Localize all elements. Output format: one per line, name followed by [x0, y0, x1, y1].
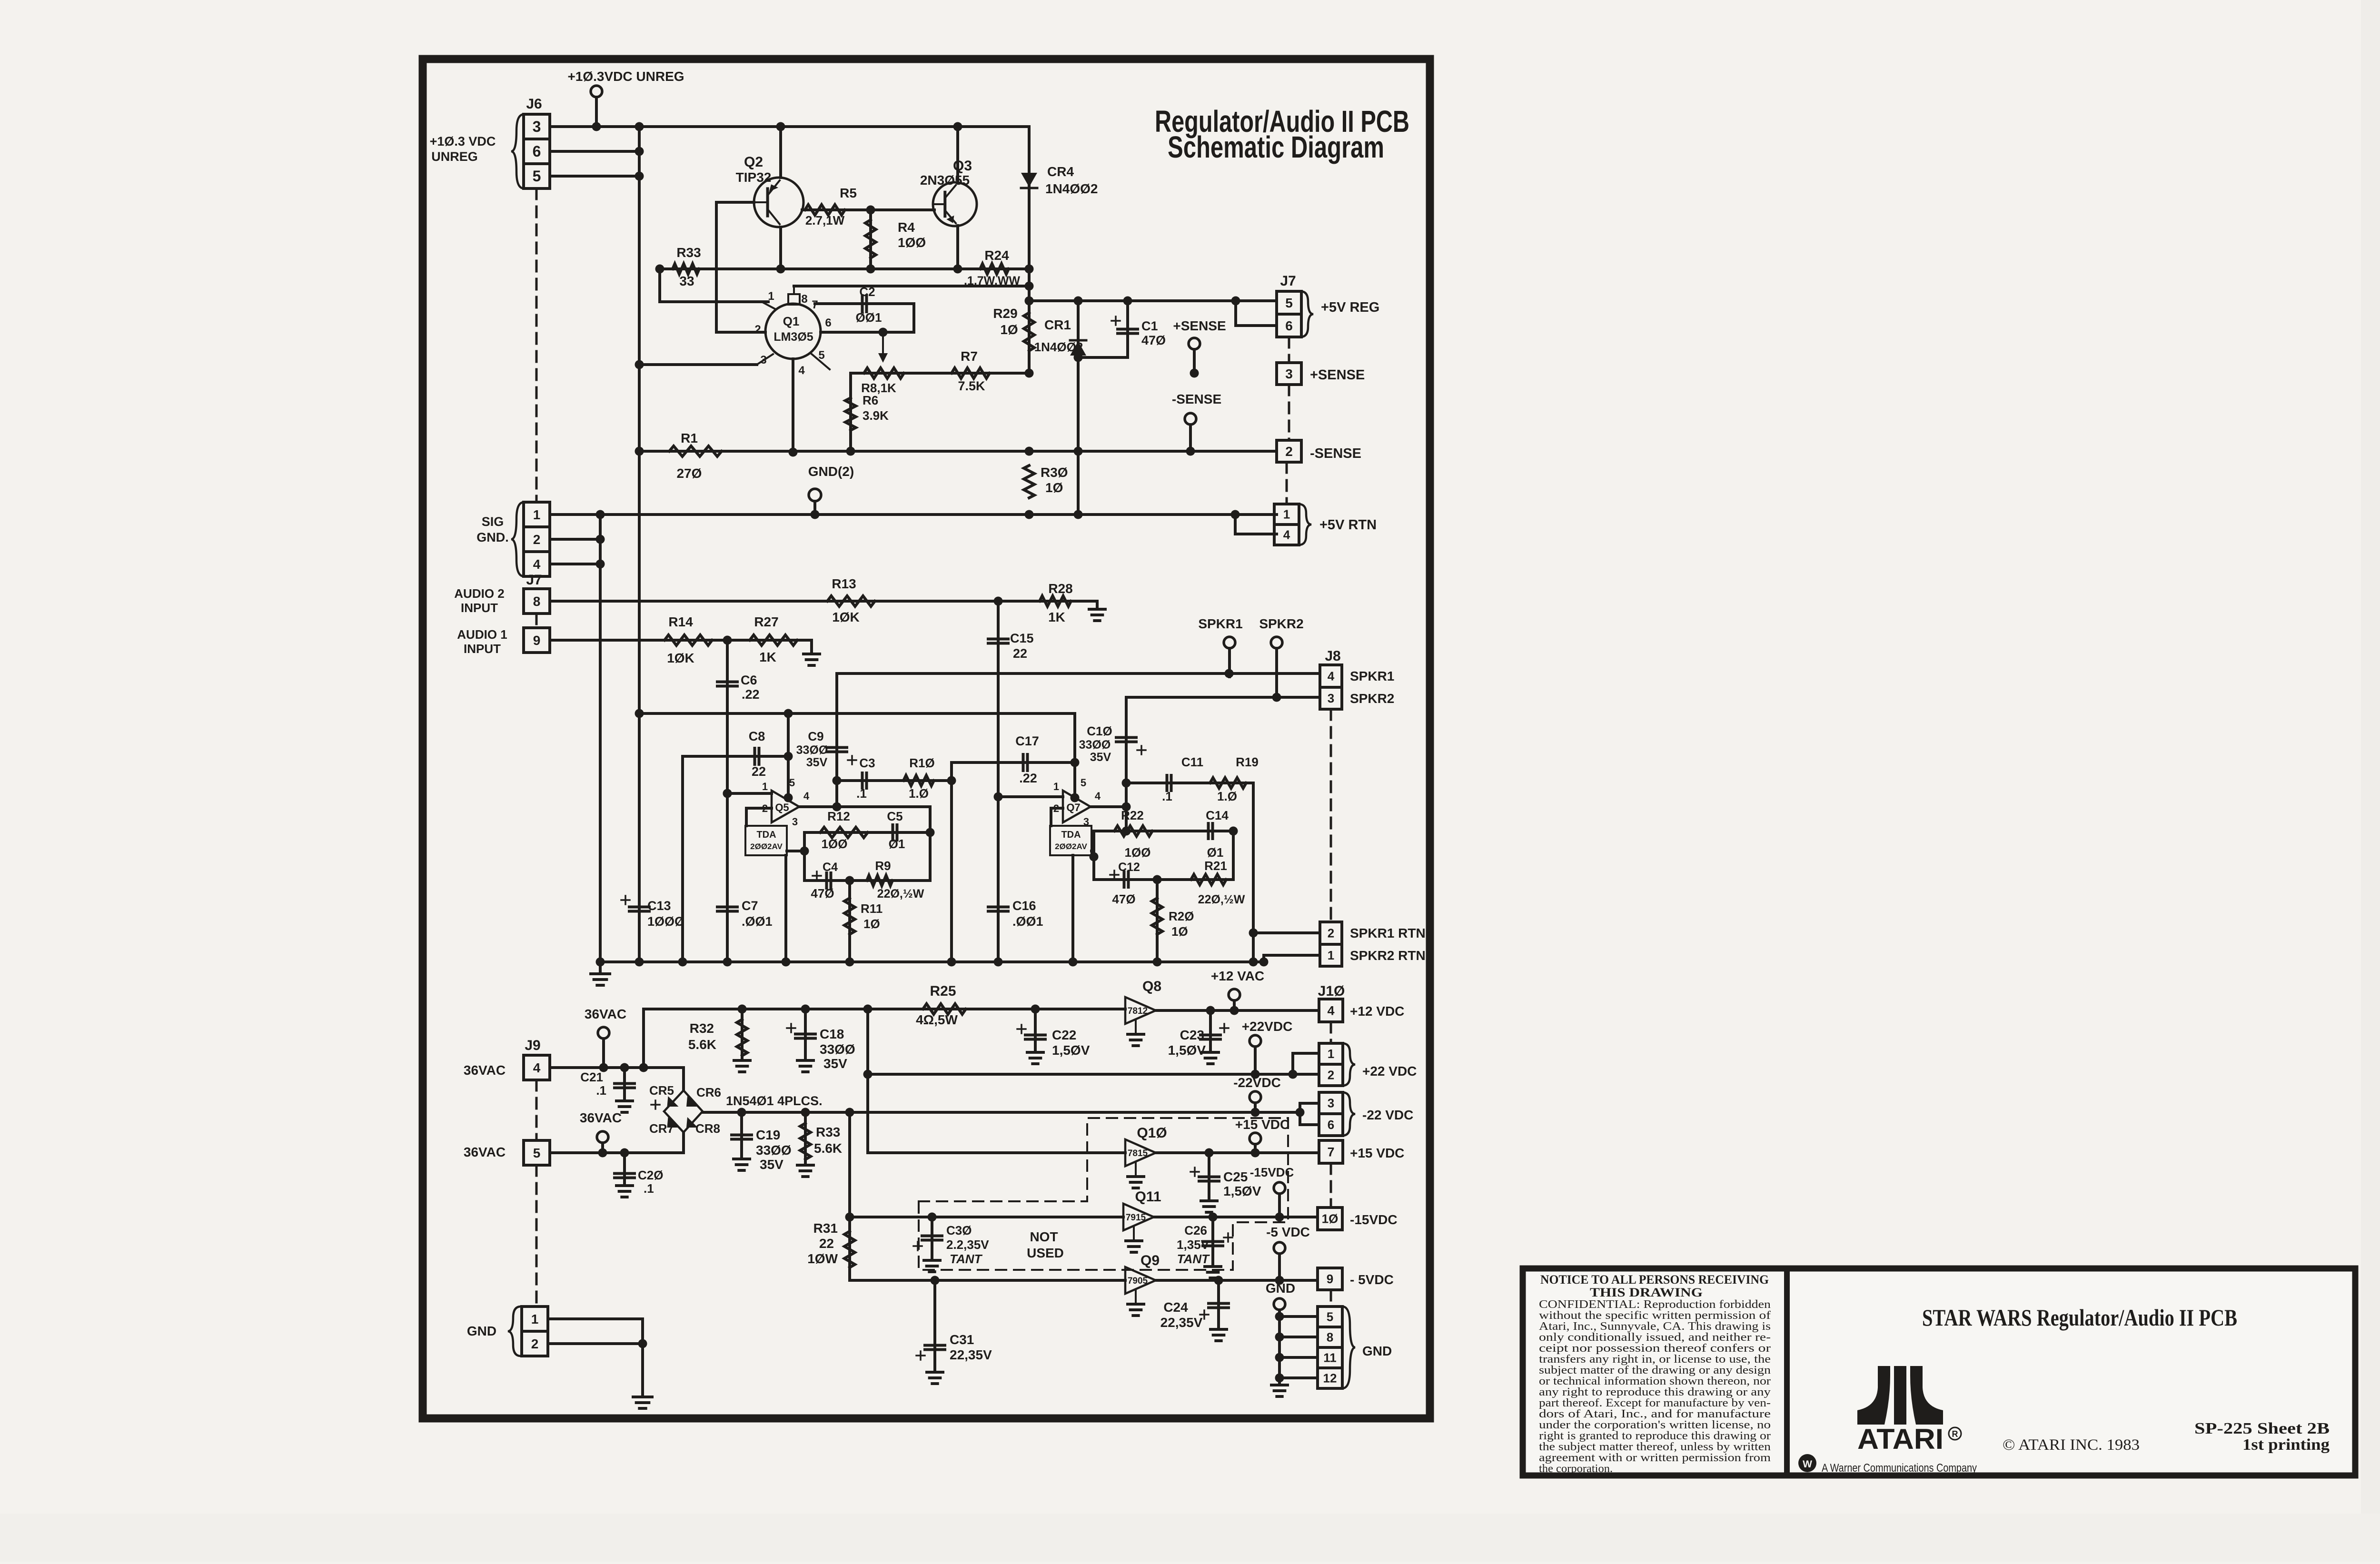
- svg-text:INPUT: INPUT: [461, 601, 498, 615]
- svg-text:R21: R21: [1204, 859, 1227, 873]
- svg-text:22: 22: [819, 1236, 834, 1251]
- svg-text:Q5: Q5: [775, 802, 789, 813]
- svg-text:C25: C25: [1223, 1169, 1248, 1184]
- svg-text:1: 1: [762, 781, 768, 792]
- svg-text:4: 4: [533, 1060, 541, 1075]
- svg-text:R: R: [1952, 1429, 1958, 1439]
- svg-text:Schematic Diagram: Schematic Diagram: [1168, 130, 1384, 164]
- svg-text:22: 22: [1013, 646, 1027, 661]
- svg-text:GND: GND: [1362, 1344, 1392, 1358]
- svg-text:+22 VDC: +22 VDC: [1362, 1064, 1417, 1079]
- svg-text:R14: R14: [668, 614, 693, 629]
- svg-text:4: 4: [1283, 528, 1290, 542]
- svg-text:1Ø: 1Ø: [1171, 924, 1188, 939]
- svg-text:INPUT: INPUT: [464, 642, 501, 656]
- svg-text:C2Ø: C2Ø: [638, 1168, 663, 1182]
- svg-text:R32: R32: [690, 1021, 714, 1036]
- svg-text:4: 4: [533, 557, 541, 572]
- svg-text:R28: R28: [1048, 581, 1072, 596]
- svg-text:1: 1: [1328, 948, 1334, 962]
- svg-text:7915: 7915: [1126, 1213, 1146, 1223]
- svg-text:R11: R11: [861, 901, 883, 916]
- svg-text:1,35V: 1,35V: [1177, 1237, 1210, 1252]
- svg-text:36VAC: 36VAC: [580, 1110, 622, 1125]
- svg-text:2: 2: [1328, 926, 1334, 940]
- svg-text:+SENSE: +SENSE: [1173, 318, 1226, 333]
- svg-text:1,5ØV: 1,5ØV: [1223, 1184, 1261, 1198]
- svg-text:+15 VDC: +15 VDC: [1350, 1146, 1404, 1160]
- svg-text:NOTICE TO ALL PERSONS RECEIVIN: NOTICE TO ALL PERSONS RECEIVING: [1540, 1273, 1769, 1287]
- svg-text:R25: R25: [930, 983, 956, 999]
- svg-text:STAR WARS Regulator/Audio II P: STAR WARS Regulator/Audio II PCB: [1922, 1304, 2237, 1331]
- svg-text:5: 5: [533, 168, 541, 185]
- svg-text:5.6K: 5.6K: [814, 1141, 842, 1156]
- svg-text:1K: 1K: [759, 650, 776, 664]
- svg-text:C3Ø: C3Ø: [946, 1223, 972, 1237]
- svg-text:2: 2: [531, 1336, 539, 1351]
- svg-text:R19: R19: [1236, 755, 1259, 769]
- svg-text:1ØØØ: 1ØØØ: [647, 914, 684, 929]
- svg-text:1ØØ: 1ØØ: [898, 235, 926, 250]
- svg-text:22Ø,½W: 22Ø,½W: [1198, 893, 1245, 906]
- svg-text:22: 22: [752, 764, 766, 779]
- svg-text:47Ø: 47Ø: [1141, 333, 1166, 347]
- svg-text:1Ø: 1Ø: [1000, 322, 1018, 337]
- svg-text:+SENSE: +SENSE: [1310, 367, 1365, 383]
- svg-text:+22VDC: +22VDC: [1242, 1019, 1293, 1034]
- svg-text:R33: R33: [816, 1125, 840, 1139]
- svg-text:TANT: TANT: [950, 1252, 983, 1266]
- svg-text:2.2,35V: 2.2,35V: [946, 1237, 989, 1252]
- svg-text:A Warner Communications Compan: A Warner Communications Company: [1822, 1462, 1977, 1475]
- svg-text:1Ø: 1Ø: [863, 917, 880, 931]
- svg-text:GND: GND: [467, 1324, 496, 1338]
- svg-text:C31: C31: [950, 1332, 974, 1347]
- svg-text:R1: R1: [681, 431, 698, 445]
- svg-text:R5: R5: [840, 186, 857, 200]
- svg-text:12: 12: [1323, 1371, 1337, 1386]
- svg-text:R2Ø: R2Ø: [1169, 909, 1194, 923]
- svg-text:33ØØ: 33ØØ: [756, 1143, 792, 1158]
- svg-text:+12 VDC: +12 VDC: [1350, 1004, 1404, 1019]
- svg-text:R12: R12: [827, 809, 850, 823]
- svg-text:SPKR2: SPKR2: [1350, 691, 1394, 706]
- svg-text:.1: .1: [856, 786, 867, 801]
- svg-text:SPKR1 RTN: SPKR1 RTN: [1350, 926, 1426, 940]
- svg-text:3: 3: [1328, 1096, 1334, 1110]
- svg-text:C11: C11: [1181, 755, 1203, 769]
- svg-text:SIG: SIG: [482, 515, 504, 529]
- svg-text:© ATARI INC. 1983: © ATARI INC. 1983: [2003, 1436, 2140, 1454]
- svg-text:C24: C24: [1163, 1300, 1188, 1315]
- svg-text:1ØW: 1ØW: [807, 1251, 838, 1266]
- svg-text:.ØØ1: .ØØ1: [742, 914, 773, 929]
- svg-text:Q1Ø: Q1Ø: [1137, 1125, 1167, 1141]
- svg-text:Q1: Q1: [783, 314, 800, 328]
- svg-text:R22: R22: [1121, 808, 1144, 822]
- svg-text:C8: C8: [749, 729, 765, 743]
- svg-text:C23: C23: [1180, 1028, 1204, 1042]
- svg-text:Q8: Q8: [1142, 979, 1161, 994]
- svg-text:27Ø: 27Ø: [677, 466, 702, 481]
- svg-text:1N54Ø1 4PLCS.: 1N54Ø1 4PLCS.: [726, 1094, 823, 1108]
- svg-text:Q9: Q9: [1140, 1253, 1160, 1268]
- svg-text:-SENSE: -SENSE: [1172, 392, 1221, 406]
- svg-text:Ø1: Ø1: [1207, 845, 1224, 860]
- svg-text:-22VDC: -22VDC: [1233, 1075, 1281, 1090]
- svg-text:GND.: GND.: [476, 530, 509, 544]
- svg-text:36VAC: 36VAC: [464, 1063, 506, 1078]
- svg-text:22,35V: 22,35V: [1160, 1315, 1203, 1330]
- svg-text:R9: R9: [875, 859, 891, 873]
- svg-text:2N3Ø55: 2N3Ø55: [920, 173, 970, 188]
- svg-text:UNREG: UNREG: [431, 149, 478, 164]
- svg-text:2: 2: [1285, 444, 1293, 459]
- svg-text:R13: R13: [832, 576, 856, 591]
- svg-text:1: 1: [1053, 781, 1059, 792]
- svg-text:+5V REG: +5V REG: [1321, 300, 1379, 315]
- svg-text:3: 3: [760, 354, 766, 366]
- svg-text:8: 8: [1327, 1330, 1333, 1345]
- svg-text:C2: C2: [859, 285, 875, 299]
- svg-text:4: 4: [1328, 669, 1335, 683]
- svg-text:7815: 7815: [1128, 1148, 1148, 1158]
- svg-text:SP-225 Sheet 2B: SP-225 Sheet 2B: [2194, 1420, 2330, 1437]
- svg-text:C14: C14: [1206, 808, 1229, 822]
- svg-text:CR1: CR1: [1044, 317, 1071, 332]
- svg-text:SPKR1: SPKR1: [1198, 616, 1242, 631]
- svg-text:5: 5: [1327, 1310, 1333, 1324]
- svg-text:4: 4: [803, 790, 810, 802]
- svg-text:33: 33: [679, 274, 694, 288]
- svg-text:-SENSE: -SENSE: [1310, 446, 1361, 461]
- svg-text:1K: 1K: [1048, 610, 1065, 624]
- svg-text:C21: C21: [580, 1070, 603, 1084]
- svg-text:+5V RTN: +5V RTN: [1319, 517, 1377, 533]
- svg-text:1st printing: 1st printing: [2242, 1436, 2330, 1454]
- svg-text:C1: C1: [1141, 319, 1158, 333]
- svg-text:1: 1: [768, 290, 774, 303]
- svg-text:35V: 35V: [1090, 751, 1111, 764]
- svg-text:3: 3: [1285, 366, 1293, 381]
- svg-text:R3Ø: R3Ø: [1041, 465, 1068, 480]
- svg-text:AUDIO 1: AUDIO 1: [457, 627, 507, 642]
- svg-text:W: W: [1803, 1459, 1812, 1470]
- svg-text:R31: R31: [813, 1221, 838, 1236]
- svg-text:C5: C5: [887, 809, 902, 823]
- svg-text:5: 5: [818, 349, 824, 362]
- svg-text:USED: USED: [1027, 1246, 1064, 1260]
- svg-text:CR8: CR8: [695, 1121, 720, 1136]
- svg-text:11: 11: [1323, 1351, 1337, 1365]
- svg-text:4: 4: [1327, 1003, 1334, 1018]
- svg-text:2.7,1W: 2.7,1W: [805, 213, 845, 228]
- svg-text:9: 9: [1327, 1272, 1333, 1286]
- svg-text:R24: R24: [984, 248, 1009, 263]
- svg-text:Q11: Q11: [1135, 1189, 1161, 1205]
- svg-text:C16: C16: [1012, 899, 1036, 913]
- svg-text:C26: C26: [1184, 1223, 1207, 1237]
- svg-text:R6: R6: [863, 393, 878, 407]
- svg-text:- 5VDC: - 5VDC: [1350, 1272, 1394, 1287]
- svg-text:-15VDC: -15VDC: [1350, 1212, 1398, 1227]
- svg-text:.1: .1: [644, 1181, 654, 1196]
- svg-text:1,5ØV: 1,5ØV: [1052, 1043, 1090, 1058]
- svg-text:1Ø: 1Ø: [1045, 480, 1063, 495]
- svg-text:5: 5: [1285, 296, 1293, 310]
- svg-text:TDA: TDA: [1061, 830, 1081, 840]
- svg-text:36VAC: 36VAC: [585, 1007, 626, 1021]
- svg-text:1.Ø: 1.Ø: [1217, 789, 1237, 803]
- svg-text:CR5: CR5: [649, 1083, 674, 1098]
- svg-text:1Ø: 1Ø: [1322, 1212, 1339, 1226]
- svg-text:3: 3: [1328, 691, 1334, 705]
- svg-text:7905: 7905: [1128, 1276, 1148, 1286]
- svg-text:C18: C18: [820, 1027, 844, 1041]
- svg-text:1ØØ: 1ØØ: [822, 837, 848, 851]
- svg-text:J7: J7: [526, 572, 542, 588]
- svg-text:LM3Ø5: LM3Ø5: [773, 330, 813, 344]
- svg-text:+12 VAC: +12 VAC: [1211, 969, 1264, 983]
- svg-text:33ØØ: 33ØØ: [1079, 738, 1111, 752]
- svg-text:C19: C19: [756, 1128, 780, 1142]
- svg-text:1,5ØV: 1,5ØV: [1168, 1043, 1206, 1058]
- svg-text:1: 1: [531, 1312, 539, 1326]
- svg-text:1N4ØØ2: 1N4ØØ2: [1045, 181, 1098, 196]
- svg-text:5: 5: [789, 777, 795, 789]
- svg-text:Q7: Q7: [1066, 802, 1080, 813]
- svg-text:7812: 7812: [1128, 1006, 1148, 1016]
- svg-text:R4: R4: [898, 220, 915, 235]
- svg-text:+1Ø.3 VDC: +1Ø.3 VDC: [430, 134, 496, 148]
- svg-text:GND: GND: [1266, 1281, 1295, 1296]
- svg-text:NOT: NOT: [1030, 1229, 1058, 1244]
- svg-text:7: 7: [1327, 1145, 1334, 1159]
- svg-text:R33: R33: [676, 245, 701, 260]
- svg-text:2: 2: [533, 532, 541, 547]
- svg-text:4: 4: [1095, 790, 1101, 802]
- svg-text:1.Ø: 1.Ø: [909, 786, 929, 801]
- svg-text:C3: C3: [859, 756, 875, 770]
- svg-text:C4: C4: [823, 861, 838, 874]
- svg-text:ATARI: ATARI: [1857, 1423, 1944, 1455]
- svg-text:.1: .1: [596, 1083, 606, 1098]
- svg-text:33ØØ: 33ØØ: [820, 1042, 855, 1057]
- svg-text:TIP32: TIP32: [736, 170, 772, 185]
- svg-text:3.9K: 3.9K: [863, 408, 889, 423]
- svg-text:-15VDC: -15VDC: [1250, 1165, 1294, 1179]
- svg-text:CR6: CR6: [696, 1085, 721, 1099]
- svg-text:+15 VDC: +15 VDC: [1235, 1117, 1289, 1132]
- svg-text:THIS DRAWING: THIS DRAWING: [1590, 1286, 1703, 1299]
- svg-text:J6: J6: [526, 96, 542, 112]
- svg-text:AUDIO 2: AUDIO 2: [454, 586, 504, 601]
- svg-text:Q3: Q3: [953, 158, 972, 174]
- svg-text:C12: C12: [1118, 861, 1140, 874]
- svg-text:J9: J9: [525, 1038, 540, 1053]
- svg-text:47Ø: 47Ø: [1112, 892, 1135, 906]
- svg-text:4Ω,5W: 4Ω,5W: [916, 1012, 958, 1027]
- svg-text:J7: J7: [1280, 273, 1296, 289]
- svg-text:35V: 35V: [760, 1157, 783, 1172]
- svg-text:R7: R7: [961, 349, 978, 364]
- svg-text:47Ø: 47Ø: [811, 886, 834, 901]
- svg-text:CR4: CR4: [1047, 164, 1074, 179]
- svg-text:6: 6: [533, 143, 541, 160]
- svg-text:J1Ø: J1Ø: [1318, 983, 1345, 999]
- svg-text:C15: C15: [1010, 631, 1034, 645]
- svg-text:5: 5: [1081, 777, 1086, 789]
- svg-text:1ØK: 1ØK: [667, 651, 694, 665]
- svg-text:5.6K: 5.6K: [688, 1037, 716, 1052]
- svg-text:J8: J8: [1325, 648, 1340, 664]
- svg-text:R29: R29: [993, 306, 1017, 321]
- svg-text:5: 5: [533, 1146, 541, 1160]
- svg-text:3: 3: [533, 118, 541, 135]
- svg-text:35V: 35V: [806, 756, 828, 769]
- svg-text:.ØØ1: .ØØ1: [1012, 914, 1043, 929]
- svg-text:6: 6: [825, 317, 831, 329]
- svg-text:.22: .22: [1019, 771, 1037, 785]
- svg-text:CR7: CR7: [649, 1121, 674, 1136]
- svg-text:.22: .22: [742, 687, 760, 702]
- svg-text:-22 VDC: -22 VDC: [1362, 1108, 1413, 1122]
- svg-text:C1Ø: C1Ø: [1087, 724, 1112, 738]
- svg-text:1ØØ: 1ØØ: [1125, 845, 1151, 860]
- svg-text:8: 8: [533, 594, 541, 609]
- svg-text:ØØ1: ØØ1: [856, 310, 882, 325]
- svg-text:1ØK: 1ØK: [832, 610, 860, 624]
- svg-text:1: 1: [1283, 507, 1290, 522]
- svg-text:8: 8: [801, 293, 807, 306]
- svg-text:C6: C6: [741, 673, 757, 687]
- svg-text:22,35V: 22,35V: [950, 1347, 992, 1362]
- svg-text:2ØØ2AV: 2ØØ2AV: [1055, 842, 1087, 851]
- svg-text:36VAC: 36VAC: [464, 1145, 506, 1159]
- svg-text:SPKR2: SPKR2: [1259, 616, 1303, 631]
- svg-text:GND(2): GND(2): [808, 464, 854, 479]
- svg-text:R1Ø: R1Ø: [909, 756, 934, 770]
- svg-text:SPKR2 RTN: SPKR2 RTN: [1350, 948, 1426, 963]
- svg-text:2: 2: [754, 323, 761, 336]
- svg-text:Q2: Q2: [744, 154, 763, 170]
- svg-text:C22: C22: [1052, 1028, 1076, 1042]
- svg-text:1: 1: [1328, 1047, 1334, 1061]
- svg-text:1N4ØØ2: 1N4ØØ2: [1034, 340, 1083, 354]
- svg-text:SPKR1: SPKR1: [1350, 669, 1394, 683]
- svg-text:Ø1: Ø1: [889, 837, 905, 851]
- svg-text:C17: C17: [1015, 734, 1039, 748]
- svg-text:TDA: TDA: [756, 830, 776, 840]
- svg-text:2ØØ2AV: 2ØØ2AV: [750, 842, 783, 851]
- svg-text:-5 VDC: -5 VDC: [1266, 1225, 1310, 1239]
- svg-text:33ØØ: 33ØØ: [796, 743, 828, 757]
- svg-text:C13: C13: [647, 899, 671, 913]
- svg-text:35V: 35V: [823, 1056, 847, 1071]
- svg-text:TANT: TANT: [1177, 1252, 1210, 1266]
- svg-text:3: 3: [792, 816, 798, 828]
- svg-text:1: 1: [533, 507, 541, 522]
- svg-text:9: 9: [533, 633, 541, 648]
- svg-text:22Ø,½W: 22Ø,½W: [877, 887, 924, 901]
- svg-text:6: 6: [1328, 1118, 1334, 1132]
- svg-text:C7: C7: [742, 899, 758, 913]
- svg-text:6: 6: [1285, 318, 1293, 333]
- svg-text:the corporation.: the corporation.: [1539, 1462, 1613, 1475]
- svg-text:C9: C9: [808, 729, 823, 743]
- svg-text:4: 4: [798, 364, 805, 377]
- svg-text:.1: .1: [1162, 789, 1172, 803]
- svg-text:+1Ø.3VDC UNREG: +1Ø.3VDC UNREG: [567, 69, 684, 84]
- svg-text:7.5K: 7.5K: [958, 379, 985, 393]
- svg-text:R27: R27: [754, 614, 778, 629]
- svg-text:2: 2: [1328, 1068, 1334, 1082]
